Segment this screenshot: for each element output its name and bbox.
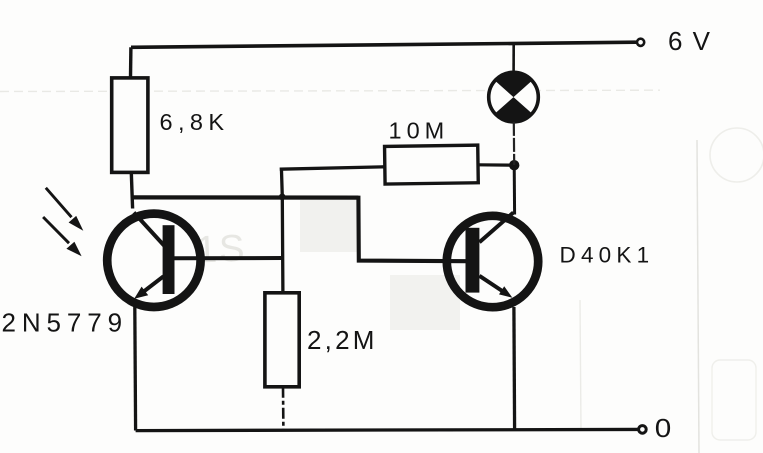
scan artifact: faint vertical line right margin [697, 140, 699, 453]
terminal 0 [639, 426, 647, 434]
wire node A down and right to Q2 base [358, 196, 466, 262]
Q2 emitter arrowhead [499, 286, 512, 298]
resistor R2 2,2M [265, 293, 299, 387]
resistor R3 10M [385, 145, 479, 184]
light arrow 2 [43, 217, 82, 256]
transistor Q1 2N5779 [107, 213, 200, 308]
Q2 emitter diagonal [479, 276, 503, 292]
terminal +6V [637, 39, 644, 46]
resistor R1 6,8K [112, 78, 148, 172]
wire node A horizontal [132, 195, 359, 200]
wire Q2 emitter lead [512, 307, 516, 430]
Q1 emitter diagonal [141, 276, 164, 294]
light arrow 1 [46, 188, 84, 231]
wire feedback branch vertical [281, 168, 283, 293]
wire R1 bottom lead to node A and Q1 collector [131, 172, 132, 208]
junction dot lamp node [509, 160, 519, 170]
wire 10M right lead [478, 163, 514, 167]
wire R1 top lead [129, 47, 133, 78]
wire R2 bottom lead [282, 387, 285, 431]
Q1 collector diagonal [134, 213, 165, 247]
svg-text:6 V: 6 V [668, 26, 712, 56]
junction dot node A / feedback branch [279, 194, 286, 201]
svg-text:2N5779: 2N5779 [2, 308, 128, 338]
Q2 collector diagonal [479, 213, 513, 243]
scan artifact: faint ghost circle right margin [710, 128, 763, 182]
scan artifact: faint ghost blob center [300, 200, 360, 252]
Q1 body circle [107, 214, 200, 307]
Q1 base bar [163, 225, 175, 294]
lamp LP1 [489, 72, 539, 122]
svg-text:2,2M: 2,2M [307, 325, 378, 355]
svg-text:0: 0 [655, 413, 672, 443]
Q2 base bar [466, 228, 480, 293]
svg-text:D40K1: D40K1 [560, 243, 655, 268]
wire Q2 collector lead [513, 165, 516, 214]
wire lamp bottom lead [513, 122, 516, 165]
Q2 body circle [447, 216, 538, 307]
svg-text:6,8K: 6,8K [160, 109, 230, 135]
wire bottom rail [136, 429, 642, 430]
wire top supply rail [131, 42, 639, 47]
transistor Q2 D40K1 [447, 213, 538, 308]
wire branch over to 10M [280, 167, 385, 169]
wire Q1 base lead [175, 256, 283, 260]
Q1 emitter arrowhead [134, 287, 148, 299]
wire Q1 emitter lead [133, 307, 137, 431]
svg-text:10M: 10M [389, 118, 450, 144]
wire lamp top lead [512, 43, 515, 73]
scan artifact: faint horizontal line [0, 90, 660, 91]
